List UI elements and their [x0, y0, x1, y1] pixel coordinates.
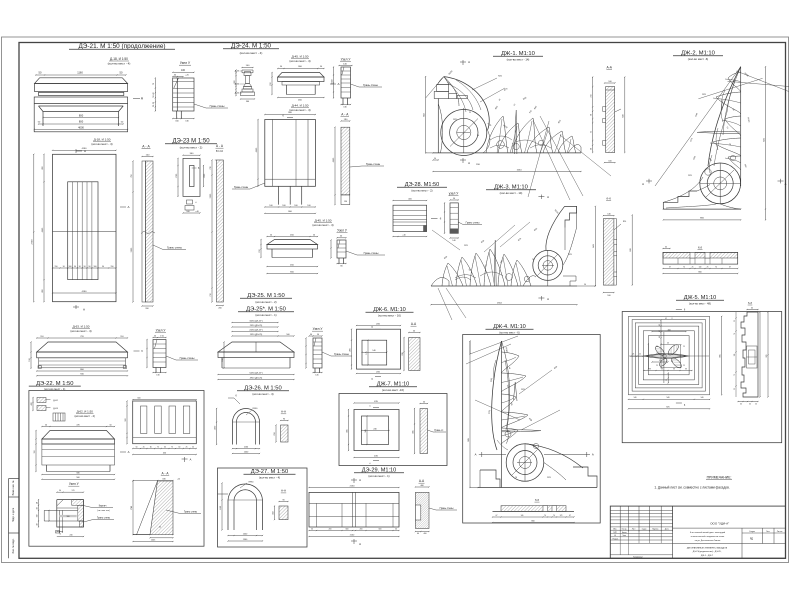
svg-text:(кол-во мест - 4): (кол-во мест - 4) — [75, 414, 95, 418]
svg-text:(кол-во мест - 2): (кол-во мест - 2) — [180, 146, 203, 150]
svg-text:67: 67 — [729, 266, 731, 268]
title block stage cells — [741, 528, 743, 558]
svg-text:Д-45. И 1:50: Д-45. И 1:50 — [315, 219, 332, 223]
svg-text:120: 120 — [734, 354, 736, 357]
svg-text:905: 905 — [720, 354, 722, 357]
svg-text:50: 50 — [36, 502, 38, 504]
svg-text:Подп. и дата: Подп. и дата — [12, 507, 15, 522]
svg-text:50: 50 — [154, 335, 156, 337]
svg-text:500: 500 — [286, 334, 289, 336]
svg-text:(кол-во мест - 4): (кол-во мест - 4) — [240, 51, 263, 55]
svg-text:2790: 2790 — [32, 239, 34, 245]
svg-text:50: 50 — [395, 528, 397, 530]
border box ДЖ-4 — [463, 335, 601, 524]
svg-text:А-А: А-А — [281, 410, 286, 414]
section arrow А of ДЖ-3 top — [538, 196, 544, 198]
svg-text:Грань ст.: Грань ст. — [434, 430, 444, 432]
left margin stamp cells — [8, 479, 10, 559]
dims ДЭ-26 arch — [216, 409, 218, 445]
svg-text:Тома: Тома — [622, 535, 626, 537]
svg-text:(кол-во мест - 1): (кол-во мест - 1) — [255, 313, 276, 317]
svg-text:+20: +20 — [177, 478, 180, 480]
svg-text:Листов: Листов — [777, 531, 783, 533]
svg-text:2160: 2160 — [350, 485, 356, 487]
svg-text:99: 99 — [685, 368, 687, 370]
svg-text:90: 90 — [84, 266, 86, 268]
svg-text:Д-18, И 1:50: Д-18, И 1:50 — [94, 138, 111, 142]
leader on arch — [234, 398, 240, 404]
svg-text:Узел У: Узел У — [180, 61, 191, 65]
svg-text:600: 600 — [623, 114, 625, 117]
ornament ДЖ-3 baseline — [431, 285, 577, 287]
svg-text:А - А: А - А — [216, 144, 224, 148]
svg-text:50: 50 — [317, 334, 319, 336]
section arrow right of Д-45 — [330, 83, 336, 85]
detail ДЭ-29 beam elevation — [309, 487, 399, 489]
svg-text:540: 540 — [667, 397, 670, 399]
svg-text:90: 90 — [282, 499, 284, 501]
panel bottom dims — [53, 267, 117, 269]
section arrow A top — [75, 149, 77, 153]
svg-text:25: 25 — [683, 365, 685, 367]
svg-text:46: 46 — [659, 324, 661, 326]
svg-text:140: 140 — [452, 240, 455, 242]
svg-text:90: 90 — [310, 334, 312, 336]
svg-text:50: 50 — [59, 490, 61, 492]
svg-text:160: 160 — [36, 515, 38, 518]
svg-text:140: 140 — [634, 397, 637, 399]
border box ДЖ-5 — [622, 312, 782, 443]
svg-text:150: 150 — [222, 358, 224, 361]
svg-text:Грань стены: Грань стены — [210, 104, 225, 108]
svg-text:ООО "УДИ-А": ООО "УДИ-А" — [710, 521, 729, 525]
svg-text:Грань стены: Грань стены — [366, 163, 381, 166]
ornament ДЖ-2 baseline — [663, 208, 740, 210]
detail ДЭ-23 anchor plate — [183, 158, 200, 196]
svg-text:ПРИМЕЧАНИЕ:: ПРИМЕЧАНИЕ: — [707, 475, 732, 479]
svg-text:75: 75 — [591, 131, 593, 133]
svg-text:Узел У: Узел У — [156, 329, 167, 333]
svg-text:Грань стены: Грань стены — [234, 186, 249, 189]
section mark A right of beam — [133, 98, 140, 100]
svg-text:1564: 1564 — [517, 169, 523, 171]
svg-text:(кол-во мест - 4): (кол-во мест - 4) — [289, 59, 310, 63]
svg-text:1160: 1160 — [77, 70, 83, 74]
svg-text:А: А — [475, 453, 477, 457]
svg-text:Грань стены: Грань стены — [364, 251, 379, 255]
svg-text:(кол-во мест - 4): (кол-во мест - 4) — [91, 142, 112, 146]
svg-text:Грань стены: Грань стены — [97, 517, 110, 519]
svg-text:(кол-во мест - 4): (кол-во мест - 4) — [70, 329, 91, 333]
svg-text:(кол-во мест - 6): (кол-во мест - 6) — [499, 330, 519, 334]
svg-text:140: 140 — [701, 397, 704, 399]
svg-text:40: 40 — [159, 527, 161, 529]
svg-text:90: 90 — [102, 266, 104, 268]
svg-text:400: 400 — [31, 403, 33, 406]
svg-text:100: 100 — [181, 69, 186, 72]
detail ДЭ-28 band profile — [393, 200, 427, 202]
svg-text:435: 435 — [346, 429, 348, 432]
svg-text:А: А — [83, 308, 85, 312]
svg-text:25: 25 — [656, 346, 658, 348]
svg-text:2420 (ДЭ-25*): 2420 (ДЭ-25*) — [249, 329, 263, 331]
svg-text:А: А — [359, 542, 361, 546]
section arrow A mid — [120, 206, 126, 208]
svg-text:25: 25 — [143, 446, 145, 448]
svg-text:88: 88 — [671, 361, 673, 363]
svg-text:99: 99 — [649, 368, 651, 370]
svg-text:Грань стены: Грань стены — [466, 222, 480, 225]
svg-text:50: 50 — [453, 198, 455, 200]
svg-text:Грань стены: Грань стены — [184, 512, 197, 514]
svg-text:25: 25 — [683, 346, 685, 348]
ornament ДЖ-4 leaders — [466, 344, 511, 364]
ornament ДЖ-1 top steps — [438, 77, 450, 85]
svg-text:240: 240 — [70, 534, 73, 536]
svg-text:1920 (ДЭ-25): 1920 (ДЭ-25) — [250, 334, 263, 336]
svg-text:600: 600 — [138, 398, 141, 400]
svg-text:200: 200 — [360, 528, 363, 530]
svg-text:74: 74 — [715, 266, 717, 268]
ornament ДЖ-4 spine and sweeps — [501, 341, 503, 488]
svg-text:50: 50 — [136, 446, 138, 448]
svg-text:75: 75 — [171, 446, 173, 448]
detail Д-45 cornice below — [267, 236, 318, 238]
svg-text:90: 90 — [74, 266, 76, 268]
svg-text:4000: 4000 — [78, 125, 84, 129]
svg-text:(кол-во мест - 4): (кол-во мест - 4) — [289, 108, 310, 112]
title block frame — [610, 506, 785, 558]
svg-text:(кол-во мест - 2): (кол-во мест - 2) — [411, 189, 432, 193]
detail Д-62 cornice in box — [42, 426, 115, 428]
svg-text:А - А: А - А — [142, 144, 150, 148]
svg-text:А: А — [547, 195, 549, 199]
svg-text:б.б: б.б — [535, 498, 540, 502]
svg-text:А: А — [190, 458, 192, 462]
ornament ДЖ-1 left edge and baseline — [437, 99, 439, 153]
detail ДЭ-27 arch — [218, 493, 229, 495]
svg-text:Инв. № подл.: Инв. № подл. — [12, 538, 15, 553]
leaders of Узел У ДЭ-22 — [81, 505, 92, 508]
ornament ДЖ-4 А-А axis — [479, 453, 506, 455]
svg-text:905: 905 — [766, 355, 768, 358]
svg-text:99: 99 — [666, 379, 668, 381]
ornament ДЖ-2 long diagonals — [736, 71, 789, 92]
svg-text:100: 100 — [269, 205, 272, 207]
stacked dim lines ДЭ-25 — [232, 322, 278, 324]
svg-text:25: 25 — [656, 365, 658, 367]
detail Д-44 panel — [265, 114, 316, 116]
svg-text:74: 74 — [544, 515, 546, 517]
svg-text:90: 90 — [283, 418, 285, 420]
baluster front view — [242, 67, 253, 69]
section arrow of Д-63 — [134, 350, 140, 352]
rosette bottom dims — [628, 398, 709, 400]
svg-text:(кол-во мест - 4): (кол-во мест - 4) — [312, 223, 333, 227]
svg-text:70: 70 — [515, 477, 517, 479]
svg-text:150: 150 — [55, 266, 58, 268]
svg-text:Узел У: Узел У — [341, 58, 352, 62]
svg-text:100: 100 — [307, 205, 310, 207]
svg-text:90: 90 — [63, 266, 65, 268]
svg-text:67: 67 — [569, 515, 571, 517]
ornament ДЖ-4 baseline — [478, 487, 597, 489]
svg-text:Д-18, И 1:50: Д-18, И 1:50 — [110, 57, 128, 61]
svg-text:А-А: А-А — [281, 489, 286, 493]
baluster dims — [235, 70, 237, 96]
ornament ДЖ-2 dims — [663, 219, 740, 221]
svg-text:173: 173 — [560, 515, 563, 517]
svg-text:60: 60 — [179, 446, 181, 448]
svg-text:А: А — [128, 450, 130, 454]
svg-text:150: 150 — [111, 266, 114, 268]
svg-text:67: 67 — [669, 266, 671, 268]
svg-text:Д-63. И 1:50: Д-63. И 1:50 — [73, 325, 90, 329]
svg-text:Кол.уч: Кол.уч — [622, 528, 627, 530]
svg-text:200: 200 — [329, 528, 332, 530]
ornament ДЖ-3 leaders — [438, 288, 452, 320]
svg-text:70: 70 — [683, 266, 685, 268]
dims ДЭ-27 arch — [221, 483, 223, 530]
ornament ДЖ-4 right sweep and steps — [525, 444, 583, 468]
svg-text:67: 67 — [496, 515, 498, 517]
svg-text:140: 140 — [699, 266, 702, 268]
svg-text:(кол-во мест - 4): (кол-во мест - 4) — [259, 476, 280, 480]
svg-text:Изм.: Изм. — [613, 528, 617, 530]
svg-text:РД: РД — [750, 539, 753, 541]
svg-text:Подпись: Подпись — [652, 528, 658, 530]
svg-text:(кол-во мест - 48): (кол-во мест - 48) — [689, 301, 711, 305]
svg-text:46: 46 — [667, 343, 669, 345]
svg-text:160: 160 — [282, 205, 285, 207]
svg-text:600: 600 — [346, 528, 349, 530]
svg-text:90: 90 — [79, 266, 81, 268]
svg-text:(кол-во мест - 4): (кол-во мест - 4) — [108, 62, 131, 66]
svg-text:А - А: А - А — [341, 112, 349, 116]
svg-text:3420 (ДЭ-25*): 3420 (ДЭ-25*) — [249, 320, 263, 322]
svg-text:Д-63: Д-63 — [53, 408, 58, 410]
rosette nested squares — [628, 316, 709, 394]
title block left grid — [619, 506, 621, 531]
svg-text:800: 800 — [79, 113, 84, 117]
ornament ДЖ-1 leader lines — [533, 120, 570, 200]
svg-text:Грань стены: Грань стены — [180, 356, 195, 360]
detail ДЭ-21 beam elevation — [36, 74, 126, 76]
rosette right dim — [721, 316, 723, 394]
detail Д-45 beam — [278, 68, 324, 70]
dims of Узел У ДЭ-22 — [38, 500, 40, 527]
svg-text:600: 600 — [630, 248, 632, 251]
ornament ДЖ-2 horizontal spike — [697, 131, 740, 133]
svg-text:250: 250 — [274, 432, 276, 435]
svg-text:50-40: 50-40 — [331, 80, 333, 85]
svg-text:А: А — [785, 182, 787, 186]
svg-text:Узел У: Узел У — [313, 327, 324, 331]
svg-text:1740: 1740 — [131, 506, 133, 510]
svg-text:Д-62. И 1:50: Д-62. И 1:50 — [77, 410, 94, 414]
svg-text:50: 50 — [584, 284, 586, 286]
svg-text:50: 50 — [755, 404, 757, 406]
ornament ДЖ-2 bottom steps — [663, 191, 697, 209]
ornament ДЖ-2 leaf chain — [728, 72, 741, 92]
svg-text:Д-62: Д-62 — [53, 400, 58, 402]
svg-text:150: 150 — [34, 451, 36, 454]
ornament ДЖ-1 small circles — [497, 141, 505, 149]
svg-text:Грань стены: Грань стены — [334, 352, 349, 356]
svg-text:А: А — [468, 161, 470, 165]
svg-text:А: А — [642, 182, 644, 186]
svg-text:(кол-во мест - 14): (кол-во мест - 14) — [507, 58, 530, 62]
svg-text:5420 (ДЭ-25*): 5420 (ДЭ-25*) — [249, 372, 263, 374]
ornament ДЖ-4 spike — [514, 382, 518, 401]
detail Д-62 slot plan — [133, 401, 197, 444]
svg-text:206: 206 — [402, 352, 404, 355]
svg-text:800: 800 — [79, 120, 84, 124]
svg-text:40: 40 — [659, 336, 661, 338]
svg-text:75: 75 — [157, 446, 159, 448]
svg-text:ДЭ-21(продолжение) - ДЭ-29,: ДЭ-21(продолжение) - ДЭ-29, — [693, 551, 722, 553]
svg-text:25: 25 — [186, 446, 188, 448]
svg-text:ДЕКОРАТИВНЫЕ ЭЛЕМЕНТЫ ФАСАДОВ: ДЕКОРАТИВНЫЕ ЭЛЕМЕНТЫ ФАСАДОВ — [687, 546, 728, 549]
svg-text:60: 60 — [749, 404, 751, 406]
svg-text:(кол-во мест - 14): (кол-во мест - 14) — [500, 191, 523, 195]
svg-text:60: 60 — [591, 148, 593, 150]
ornament ДЖ-2 small circles — [705, 169, 711, 175]
svg-text:Лист: Лист — [766, 531, 770, 533]
detail ДЖ-7 plan — [354, 402, 399, 404]
svg-text:52: 52 — [506, 385, 508, 387]
svg-text:Стадия: Стадия — [749, 531, 755, 533]
svg-text:1. Данный лист см. совместно с: 1. Данный лист см. совместно с листами ф… — [654, 486, 729, 490]
detail ДЭ-26 arch — [233, 409, 260, 445]
svg-text:400: 400 — [424, 533, 427, 535]
svg-text:25: 25 — [639, 354, 641, 356]
svg-text:Копировал: Копировал — [633, 556, 642, 558]
svg-text:70: 70 — [59, 534, 61, 536]
section of ДЖ-7 — [420, 403, 428, 405]
svg-text:2920 (ДЭ-25): 2920 (ДЭ-25) — [250, 325, 263, 327]
ornament ДЖ-2 sweeps — [708, 67, 741, 166]
svg-text:А - А: А - А — [161, 472, 169, 476]
svg-text:1:50: 1:50 — [160, 335, 164, 337]
svg-text:Узел У: Узел У — [69, 482, 80, 486]
svg-text:825: 825 — [666, 407, 669, 409]
svg-text:50: 50 — [36, 507, 38, 509]
svg-text:50: 50 — [109, 424, 111, 426]
detail ДЭ-23 lower fixing — [187, 200, 193, 204]
svg-text:99: 99 — [673, 368, 675, 370]
panel Д-18 elevation — [53, 154, 117, 301]
svg-text:25: 25 — [734, 388, 736, 390]
svg-text:42: 42 — [665, 318, 667, 320]
svg-text:175: 175 — [366, 351, 368, 354]
svg-text:70: 70 — [729, 144, 731, 146]
svg-text:А: А — [592, 453, 594, 457]
panel dim lines — [33, 154, 35, 301]
svg-text:60: 60 — [150, 446, 152, 448]
border box ДЭ-27 — [218, 468, 308, 547]
svg-text:25: 25 — [734, 320, 736, 322]
svg-text:145: 145 — [315, 374, 318, 376]
svg-text:№док.: №док. — [642, 527, 647, 530]
svg-text:Лист: Лист — [632, 528, 636, 530]
ornament ДЖ-4 horizontal spike — [502, 430, 541, 432]
svg-text:6-ти этажный жилой дом с манса: 6-ти этажный жилой дом с мансардой — [690, 531, 725, 534]
ornament ДЖ-1 tall spike — [515, 110, 517, 154]
svg-text:170: 170 — [72, 490, 75, 492]
ornament ДЖ-3 dims — [431, 304, 577, 306]
svg-text:70: 70 — [532, 259, 534, 261]
svg-text:б-б: б-б — [748, 301, 753, 305]
comb detail in ДЭ-22 — [53, 413, 65, 421]
leader left of Д-44 — [250, 183, 265, 189]
svg-text:50: 50 — [313, 234, 315, 236]
svg-text:75: 75 — [734, 374, 736, 376]
svg-text:435: 435 — [412, 430, 414, 433]
svg-text:50: 50 — [45, 424, 47, 426]
ornament ДЖ-1 leaf cluster — [486, 116, 508, 153]
svg-text:90: 90 — [89, 266, 91, 268]
svg-text:345: 345 — [365, 429, 367, 432]
svg-text:210: 210 — [591, 95, 593, 98]
small fixing details in ДЭ-22 — [37, 398, 46, 403]
ornament ДЖ-3 small circles — [506, 274, 513, 281]
svg-text:Квитко: Квитко — [622, 532, 627, 534]
ornament ДЖ-1 volute circles — [441, 110, 487, 156]
ornament ДЖ-2 volute circles — [700, 163, 741, 204]
svg-text:60: 60 — [751, 307, 753, 309]
svg-text:50: 50 — [192, 446, 194, 448]
svg-text:А: А — [127, 205, 129, 209]
svg-text:50-30: 50-30 — [153, 101, 155, 107]
border box ДЭ-22 — [29, 391, 204, 547]
ornament ДЖ-4 volute circles — [506, 444, 544, 482]
svg-text:99: 99 — [661, 368, 663, 370]
svg-text:Взам. инв. №: Взам. инв. № — [12, 480, 15, 495]
svg-text:А-А: А-А — [419, 479, 425, 483]
ornament ДЖ-3 top steps — [565, 206, 577, 227]
svg-text:560: 560 — [125, 419, 127, 422]
ornament ДЖ-4 leaf chain — [502, 352, 520, 373]
svg-text:узел У: узел У — [449, 192, 459, 196]
svg-text:А-А: А-А — [411, 322, 417, 326]
ornament ДЖ-2 right vertical edge — [740, 67, 742, 186]
svg-text:Грань стены: Грань стены — [363, 83, 378, 87]
svg-text:ДЖ-1 - ДЖ-7: ДЖ-1 - ДЖ-7 — [701, 555, 714, 557]
svg-text:60: 60 — [665, 246, 667, 248]
section arrow A of ДЭ-29 — [351, 479, 357, 481]
svg-text:130: 130 — [344, 201, 347, 203]
svg-text:1:125: 1:125 — [656, 353, 660, 355]
svg-text:А-А: А-А — [607, 65, 613, 69]
svg-text:25: 25 — [469, 112, 471, 114]
svg-text:1564: 1564 — [497, 303, 503, 305]
svg-text:и автостоянкой в подвальном эт: и автостоянкой в подвальном этаже — [691, 535, 725, 538]
svg-text:Грань стены: Грань стены — [167, 246, 182, 250]
break line in wall section — [141, 231, 155, 234]
detail ДЖ-6 plan — [357, 325, 401, 327]
ornament ДЖ-4 dims — [469, 341, 471, 488]
svg-text:(кол-во мест -16): (кол-во мест -16) — [382, 388, 404, 392]
svg-text:25: 25 — [707, 266, 709, 268]
svg-text:160: 160 — [69, 266, 72, 268]
svg-text:125: 125 — [632, 354, 635, 356]
svg-text:Грань стены: Грань стены — [440, 507, 454, 510]
svg-text:150: 150 — [29, 358, 31, 361]
svg-text:(кол-во мест -6): (кол-во мест -6) — [688, 57, 708, 61]
svg-text:Д-45. И 1:50: Д-45. И 1:50 — [292, 55, 309, 59]
svg-text:А: А — [468, 60, 470, 64]
